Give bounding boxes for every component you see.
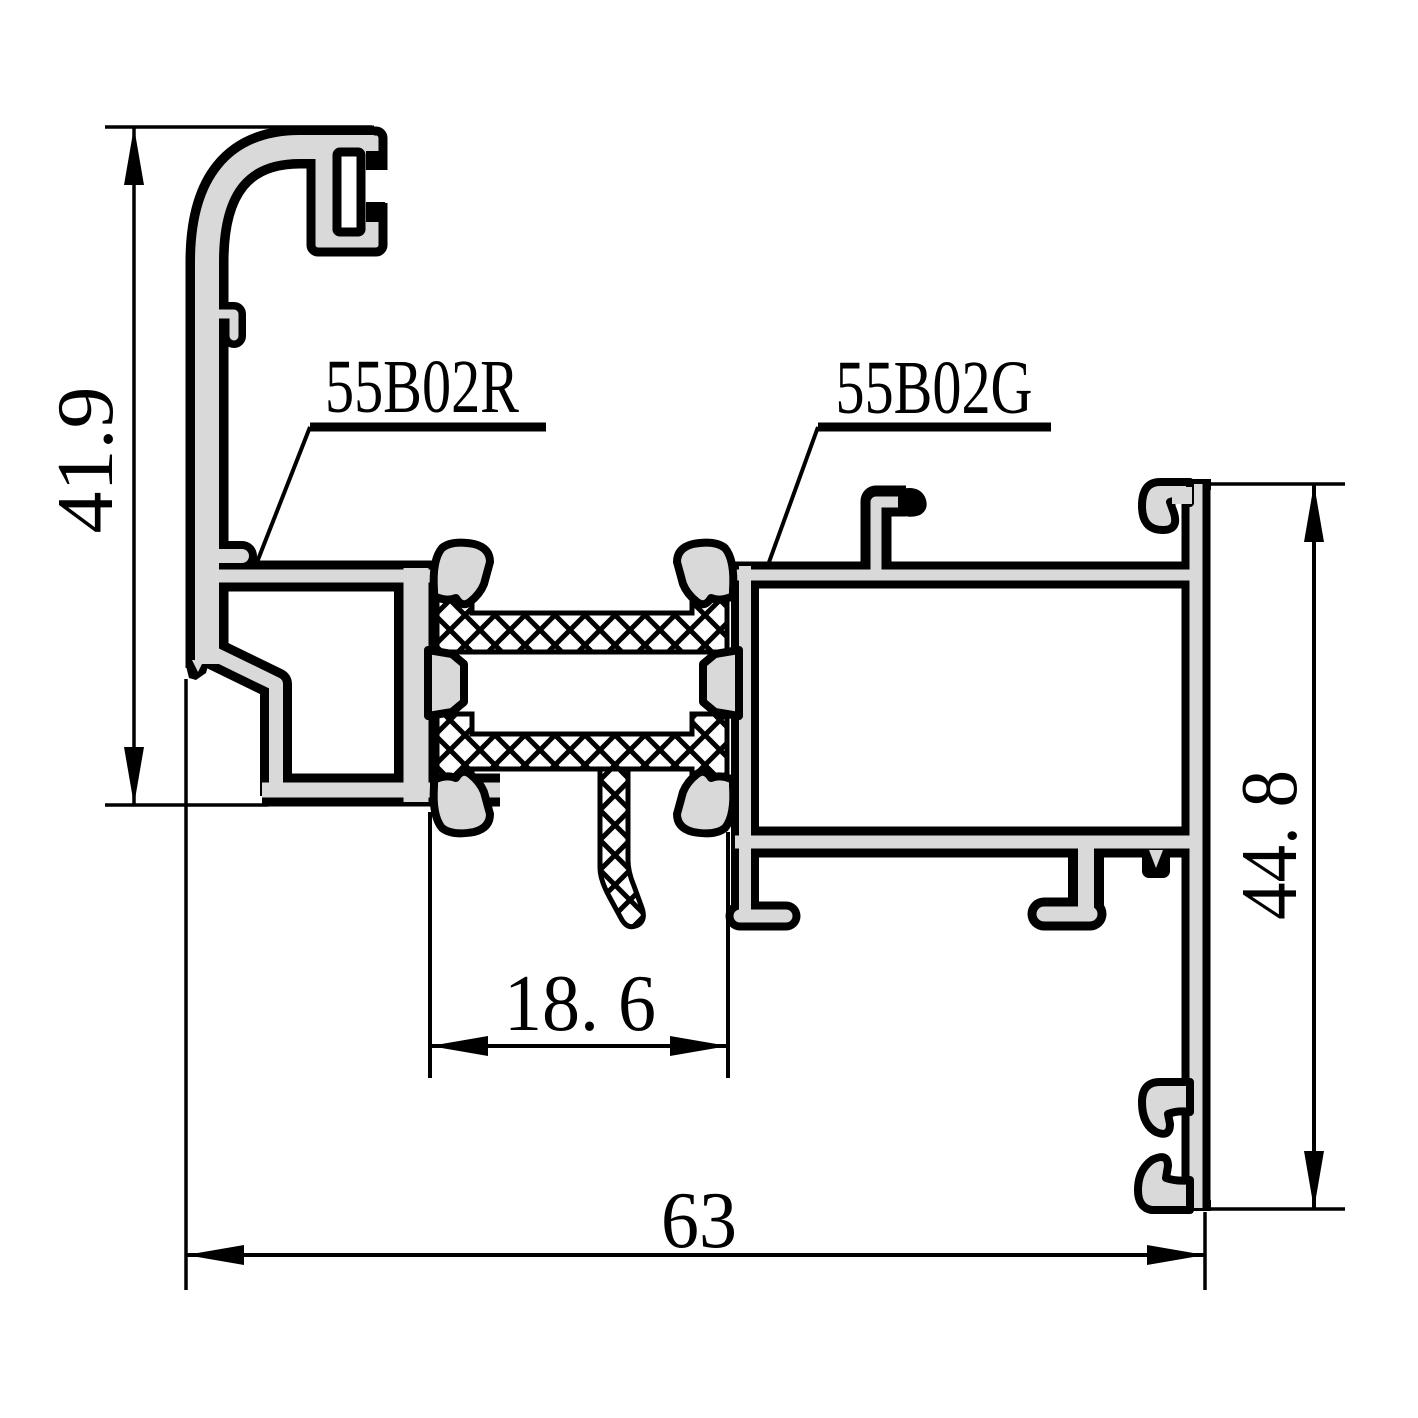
thermal claw top right — [677, 543, 733, 605]
label 55B02R leader — [252, 427, 310, 575]
svg-text:41.9: 41.9 — [42, 387, 130, 534]
thermal claw bottom right — [677, 772, 733, 834]
dimension 63 line — [186, 1253, 1205, 1257]
gray core pass — [200, 147, 1202, 1208]
glazing bar outline — [1182, 484, 1211, 1208]
gasket (hatched) — [600, 769, 643, 927]
frame C-channel top lip tip — [366, 151, 385, 170]
frame thermal wall outline — [394, 568, 438, 802]
dimension 63 extension line left — [184, 679, 188, 1290]
frame bottom wall outline — [262, 774, 500, 807]
sash leg stem outline — [1068, 842, 1104, 914]
frame C-channel outer — [311, 131, 383, 252]
dimension 41.9 line — [132, 127, 136, 805]
glazing bar top cap — [1181, 479, 1211, 490]
frame curved wall outline — [207, 147, 374, 668]
frame bump outline — [214, 314, 234, 336]
glazing bar hook lower — [1138, 1157, 1190, 1210]
frame step wall core — [202, 648, 276, 796]
sash top web outline — [735, 562, 1196, 589]
dimension 18.6 extension line left — [428, 812, 432, 1078]
label 55B02G leader dot — [756, 568, 772, 584]
sash bottom web outline — [735, 827, 1202, 858]
frame wall foot tip — [186, 666, 208, 680]
thermal mid tooth right — [703, 650, 739, 716]
thermal mid tooth left — [428, 650, 464, 716]
svg-text:63: 63 — [661, 1177, 737, 1265]
frame small rib outline — [216, 541, 242, 571]
thermal claw bottom left — [434, 772, 490, 834]
frame C-channel bottom lip tip — [366, 202, 385, 222]
sash left wall core — [739, 566, 751, 918]
dimension 41.9 extension line bottom — [105, 803, 268, 807]
frame web core — [200, 570, 437, 583]
sash hook tip — [901, 488, 927, 517]
glazing bar hook joint patch — [1172, 487, 1192, 504]
frame C-channel hole — [337, 152, 361, 232]
sash leg stem core — [1078, 842, 1094, 914]
sash leg foot outline — [1044, 898, 1090, 931]
sash under-web notch — [1142, 850, 1170, 878]
sash foot core — [740, 910, 786, 923]
label 55B02R underline — [310, 423, 546, 432]
dimension 63 extension line right — [1203, 1212, 1207, 1290]
sash hook outline — [876, 501, 906, 578]
frame small rib core — [216, 549, 242, 563]
sash left wall outline — [731, 566, 759, 918]
dimension 41.9 arrow down — [124, 747, 144, 805]
frame step wall outline — [202, 648, 276, 796]
thermal break top bar (hatched) — [437, 586, 727, 652]
frame wall foot wedge — [192, 660, 204, 672]
sash hook core — [876, 502, 898, 578]
dimension 18.6 arrow right — [670, 1036, 728, 1056]
svg-text:44. 8: 44. 8 — [1226, 770, 1314, 920]
dimension 18.6 arrow left — [430, 1036, 488, 1056]
dimension 44.8 line — [1312, 484, 1316, 1209]
frame thermal wall core — [404, 568, 429, 802]
dimension 63 arrow right — [1147, 1245, 1205, 1265]
thermal claw top left — [434, 543, 490, 605]
dimension 41.9 arrow up — [124, 127, 144, 185]
sash foot outline — [740, 902, 786, 931]
glazing bar hook upper — [1142, 1082, 1190, 1134]
label 55B02R leader dot — [244, 567, 260, 583]
dimension 44.8 extension line top — [1208, 482, 1345, 486]
dimension 41.9 extension line top — [105, 125, 372, 129]
frame bump core — [214, 314, 234, 336]
frame C-channel hole restroke — [337, 152, 361, 232]
dimension 44.8 extension line bottom — [1201, 1207, 1345, 1211]
sash under-web notch gray wedge — [1149, 850, 1163, 868]
black outline pass — [200, 147, 1202, 1208]
svg-text:55B02R: 55B02R — [325, 345, 519, 429]
sash top web core — [735, 570, 1196, 581]
glazing bar top hook — [1142, 482, 1190, 530]
label 55B02G underline — [818, 423, 1051, 432]
sash bottom web core — [735, 836, 1202, 849]
dimension 44.8 arrow up — [1304, 484, 1324, 542]
svg-text:55B02G: 55B02G — [836, 346, 1033, 430]
frame curved wall core — [207, 147, 374, 664]
dimension 63 arrow left — [186, 1245, 244, 1265]
sash leg foot core — [1044, 907, 1090, 922]
svg-text:18. 6: 18. 6 — [504, 960, 656, 1048]
dimension 18.6 line — [430, 1044, 728, 1048]
frame C-channel opening slot — [365, 170, 398, 203]
label 55B02G leader — [764, 427, 818, 576]
frame bottom wall core — [262, 783, 500, 798]
dimension 18.6 extension line right — [726, 832, 730, 1078]
thermal break bottom bar (hatched) — [437, 714, 727, 786]
dimension 44.8 arrow down — [1304, 1151, 1324, 1209]
glazing bar bottom cap — [1181, 1200, 1211, 1211]
glazing bar core — [1190, 484, 1203, 1208]
frame web outline — [200, 561, 437, 592]
